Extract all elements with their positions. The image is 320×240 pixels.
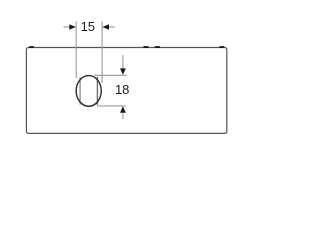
extension line right (dim 15) — [101, 21, 103, 83]
object line top (dim 18) — [94, 74, 126, 76]
clip mark 4 (top edge, right) — [219, 46, 224, 48]
leader line left (dim 15) — [64, 26, 70, 28]
pipe chord left (inside hole) — [79, 77, 81, 105]
object line bottom (dim 18) — [97, 105, 126, 107]
arrow down (dim 18) — [120, 68, 126, 75]
svg-text:18: 18 — [115, 82, 129, 97]
cabinet body outline — [26, 48, 226, 134]
pipe chord right (inside hole) — [96, 77, 98, 105]
arrow left (dim 15) — [69, 24, 76, 30]
arrow right (dim 15) — [102, 24, 109, 30]
clip mark 2 (top edge, middle-left) — [143, 46, 149, 48]
extension line left (dim 15) — [75, 21, 77, 78]
arrow up (dim 18) — [120, 106, 126, 113]
clip mark 3 (top edge, middle-right) — [155, 46, 161, 48]
leader line right (dim 15) — [109, 26, 115, 28]
leader line below (dim 18) — [122, 113, 124, 119]
clip mark 1 (top edge, left) — [29, 46, 34, 48]
svg-text:15: 15 — [81, 19, 95, 34]
leader line above (dim 18) — [122, 55, 124, 69]
hole ellipse — [76, 76, 101, 107]
